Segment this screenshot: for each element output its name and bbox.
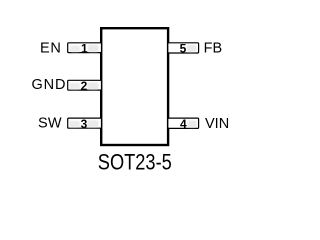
svg-text:SOT23-5: SOT23-5	[98, 150, 172, 175]
svg-text:SW: SW	[38, 115, 62, 131]
svg-text:GND: GND	[32, 77, 66, 93]
watermark mark in pin 4	[188, 121, 198, 128]
watermark mark in pin 2	[69, 83, 99, 90]
pin 2 pad	[68, 80, 102, 90]
svg-text:EN: EN	[40, 41, 61, 57]
watermark mark in pin 3	[69, 120, 99, 127]
pin 1 pad	[68, 43, 102, 53]
pin 5 pad	[168, 43, 199, 53]
watermark mark in pin 1	[70, 45, 99, 52]
svg-text:3: 3	[81, 117, 88, 131]
svg-text:5: 5	[180, 42, 187, 56]
svg-text:VIN: VIN	[205, 116, 229, 132]
IC body U1 (SOT23-5 package outline)	[101, 28, 168, 145]
pin 3 pad	[68, 118, 102, 128]
svg-text:FB: FB	[204, 41, 223, 57]
svg-text:4: 4	[180, 117, 187, 131]
pin 4 pad	[168, 118, 199, 128]
svg-text:2: 2	[81, 79, 88, 93]
watermark mark in pin 5	[187, 45, 197, 52]
svg-text:1: 1	[81, 41, 88, 55]
